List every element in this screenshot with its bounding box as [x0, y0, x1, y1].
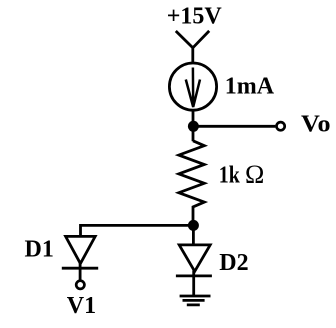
svg-text:Vo: Vo — [301, 112, 331, 138]
svg-text:+15V: +15V — [167, 3, 223, 29]
svg-text:D1: D1 — [25, 237, 54, 263]
svg-text:Ω: Ω — [245, 160, 264, 189]
svg-text:D2: D2 — [219, 250, 248, 276]
svg-text:1k: 1k — [219, 163, 241, 189]
svg-text:1mA: 1mA — [225, 74, 275, 100]
svg-text:V1: V1 — [67, 293, 96, 319]
